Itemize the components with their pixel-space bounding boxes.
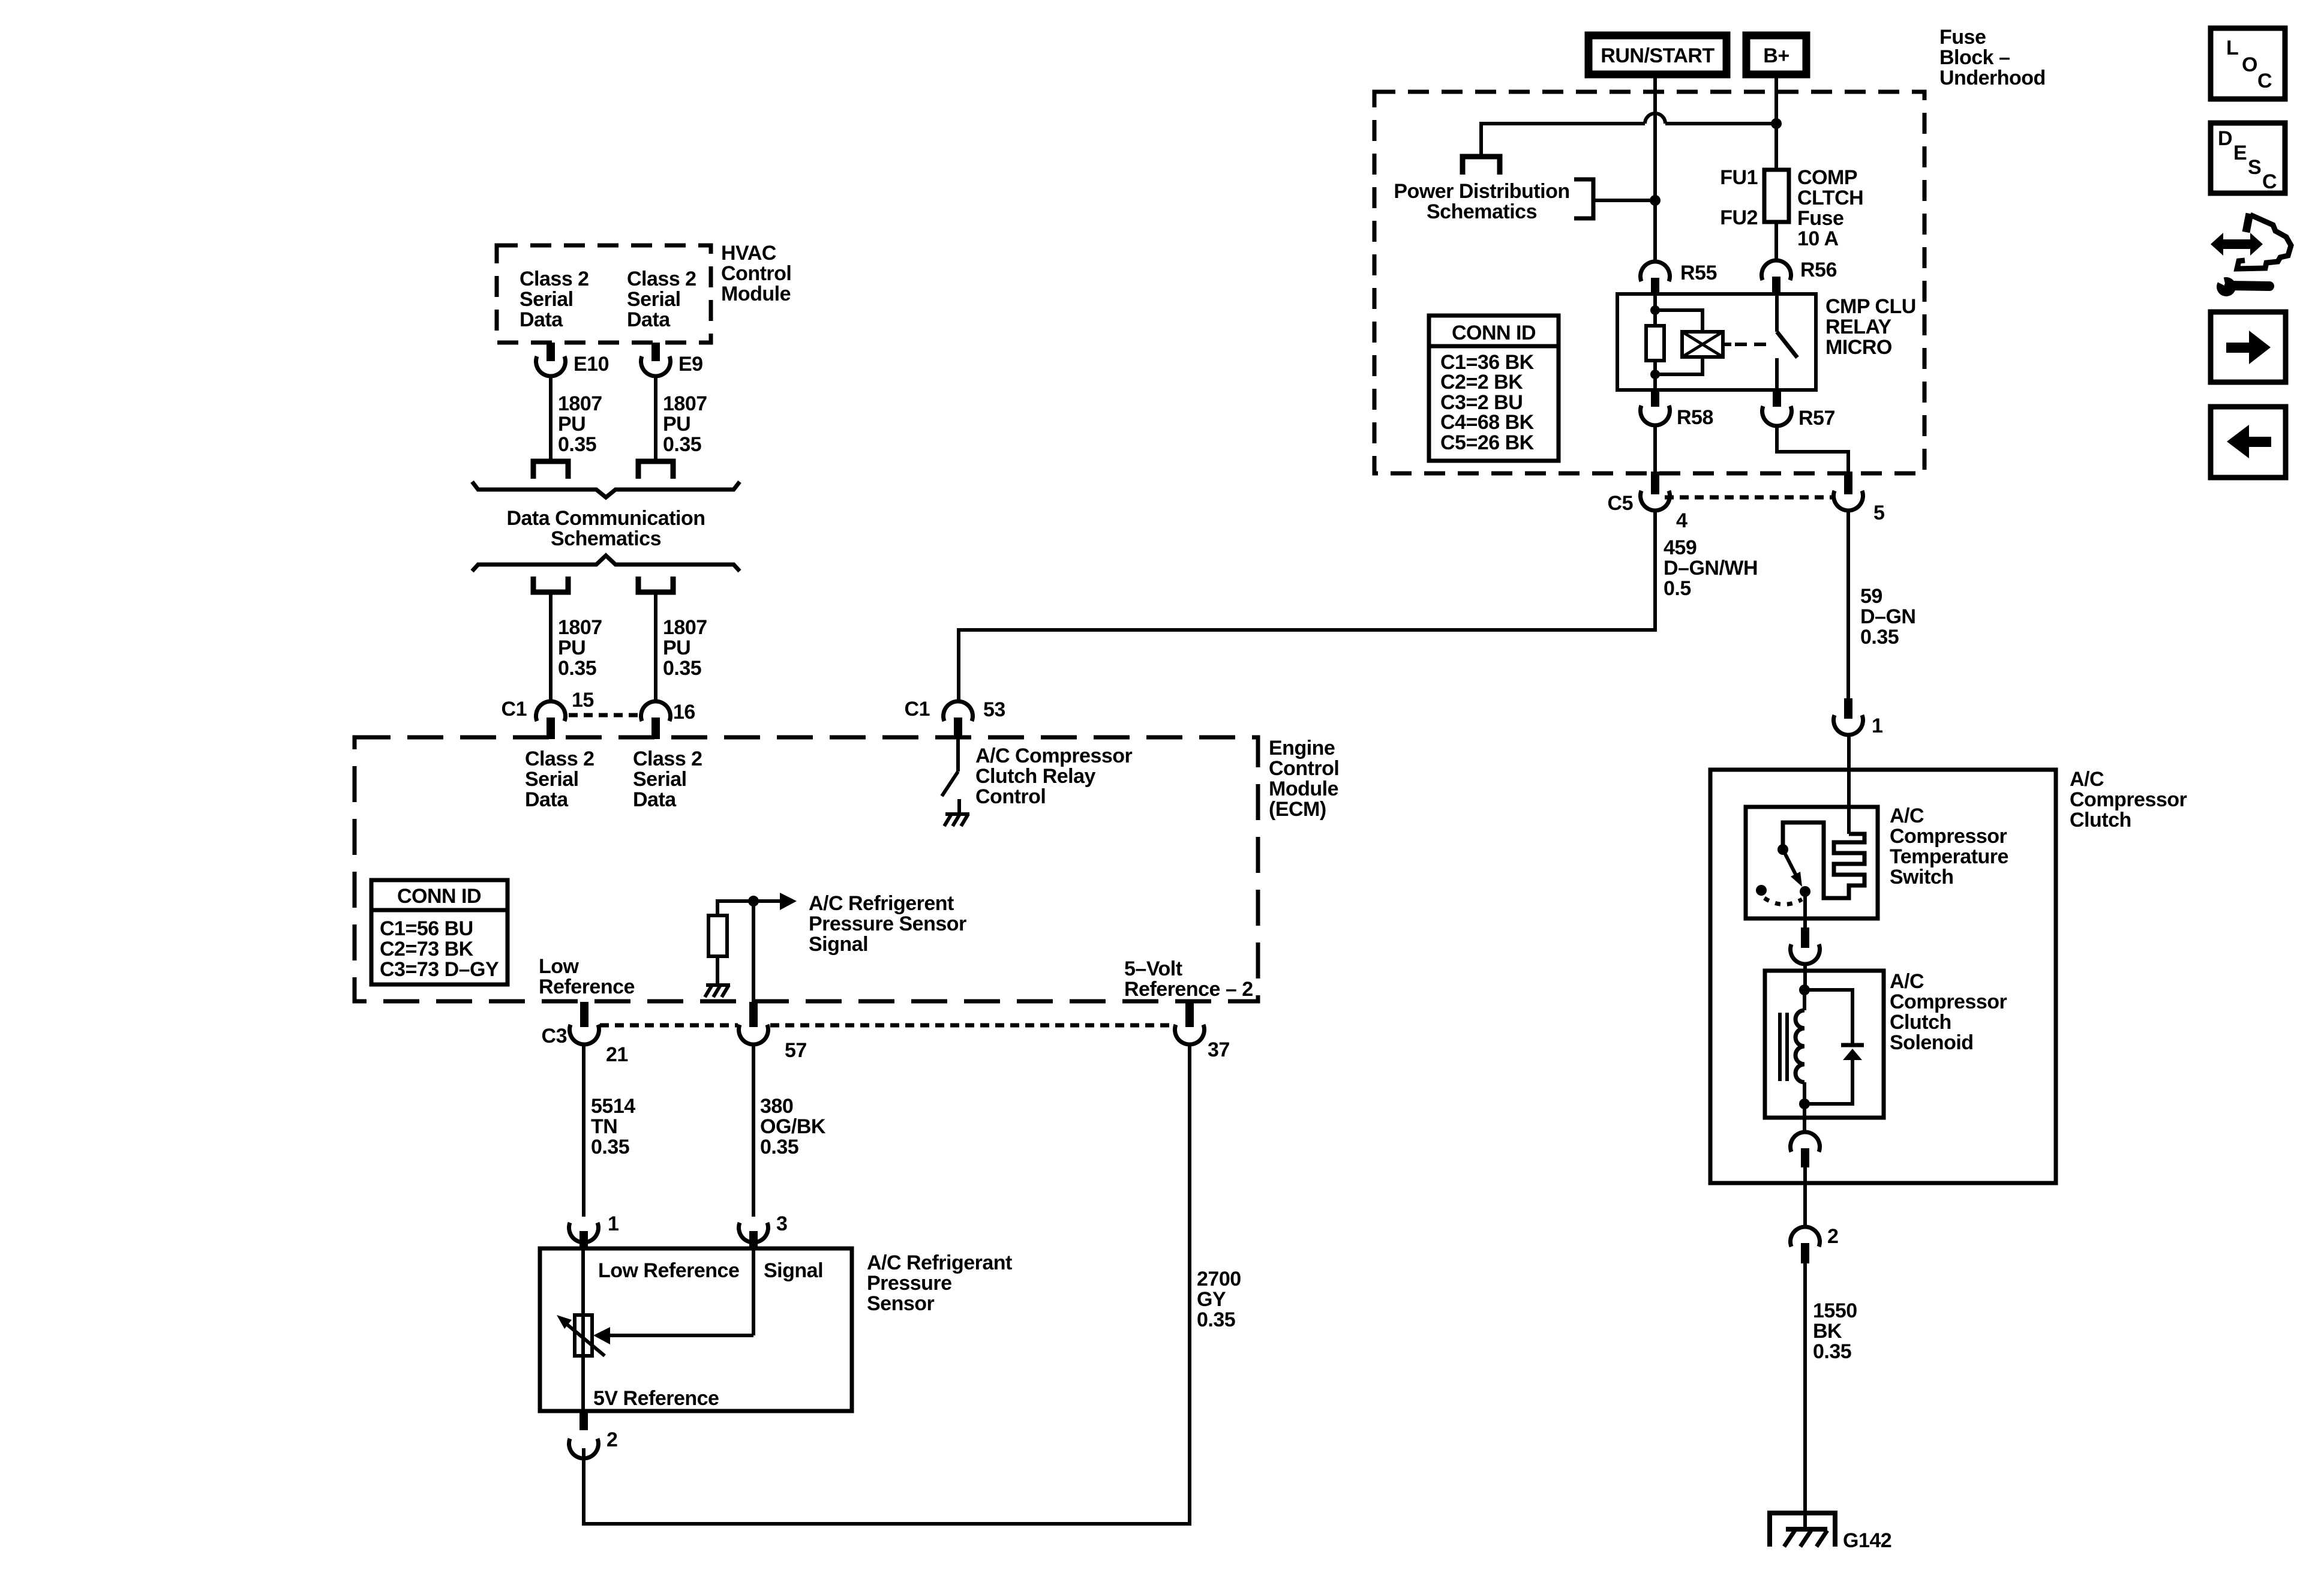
junction dot on RUN/START wire bbox=[1650, 195, 1661, 206]
svg-text:E: E bbox=[2233, 142, 2247, 164]
svg-text:TN: TN bbox=[591, 1115, 617, 1138]
node relay coil bottom bbox=[1650, 370, 1660, 379]
svg-text:C1: C1 bbox=[905, 698, 930, 721]
wire into solenoid box bbox=[1803, 963, 1807, 990]
wire signal down bbox=[752, 901, 755, 1002]
svg-text:D–GN/WH: D–GN/WH bbox=[1664, 557, 1758, 580]
wire 59 D-GN 0.35 bbox=[1846, 510, 1850, 700]
brace lower bbox=[472, 556, 740, 571]
svg-text:37: 37 bbox=[1208, 1038, 1230, 1061]
wire B+ vertical bbox=[1774, 74, 1778, 261]
label A/C Compressor Clutch Relay Control bbox=[975, 745, 1133, 808]
svg-text:C2=2 BK: C2=2 BK bbox=[1440, 371, 1523, 394]
svg-text:GY: GY bbox=[1197, 1288, 1226, 1311]
svg-text:Clutch: Clutch bbox=[1890, 1011, 1951, 1034]
svg-text:MICRO: MICRO bbox=[1825, 336, 1892, 359]
fuse block underhood dashed box bbox=[1374, 92, 1924, 473]
connector sensor pin 2 bbox=[569, 1411, 618, 1458]
connector pin 57 bbox=[738, 1002, 806, 1062]
label 1807 PU 0.35 (lower right) bbox=[663, 616, 707, 680]
svg-text:0.35: 0.35 bbox=[558, 433, 596, 456]
label 2700 GY 0.35 bbox=[1197, 1268, 1241, 1331]
svg-text:CLTCH: CLTCH bbox=[1797, 187, 1863, 209]
svg-text:Class 2: Class 2 bbox=[633, 748, 702, 770]
sensor box bbox=[540, 1248, 852, 1411]
solenoid coil bbox=[1795, 990, 1804, 1104]
svg-text:Fuse: Fuse bbox=[1797, 207, 1843, 230]
svg-text:Compressor: Compressor bbox=[2070, 788, 2187, 811]
svg-text:Clutch: Clutch bbox=[2070, 809, 2131, 831]
label COMP CLTCH Fuse 10 A bbox=[1797, 166, 1863, 250]
label 5-Volt Reference - 2 bbox=[1124, 957, 1253, 1001]
label Low Reference bbox=[539, 955, 635, 998]
svg-text:A/C Refrigerent: A/C Refrigerent bbox=[809, 892, 954, 915]
label Fuse Block - Underhood bbox=[1939, 26, 2046, 89]
bimetal element meander bbox=[1783, 822, 1864, 898]
connector R58 bbox=[1641, 390, 1713, 429]
svg-text:E9: E9 bbox=[678, 353, 703, 376]
svg-text:380: 380 bbox=[760, 1095, 793, 1118]
svg-text:Data: Data bbox=[525, 788, 569, 811]
svg-text:A/C: A/C bbox=[1890, 804, 1924, 827]
svg-text:0.35: 0.35 bbox=[558, 657, 596, 680]
svg-text:0.35: 0.35 bbox=[1860, 626, 1899, 649]
connector pin 5 bbox=[1833, 491, 1884, 524]
relay coil resistor bbox=[1646, 294, 1664, 390]
connector temp switch / solenoid bbox=[1791, 944, 1820, 964]
svg-text:Class 2: Class 2 bbox=[525, 748, 594, 770]
svg-text:C3: C3 bbox=[542, 1025, 567, 1047]
label 5514 TN 0.35 bbox=[591, 1095, 635, 1158]
temp switch blade arrow bbox=[1783, 849, 1802, 887]
svg-text:S: S bbox=[2248, 156, 2261, 179]
svg-text:Class 2: Class 2 bbox=[627, 268, 696, 290]
off-page stub to pin 15 bbox=[533, 577, 568, 592]
connector sensor pin 1 bbox=[569, 1212, 619, 1250]
svg-text:Underhood: Underhood bbox=[1939, 67, 2046, 89]
diode branch bbox=[1804, 990, 1864, 1104]
svg-text:A/C: A/C bbox=[1890, 970, 1924, 993]
connector R57 bbox=[1762, 390, 1835, 430]
svg-text:Data: Data bbox=[520, 308, 563, 331]
wire signal to wiper with arrow bbox=[593, 1248, 753, 1344]
svg-text:Signal: Signal bbox=[764, 1259, 823, 1282]
svg-text:59: 59 bbox=[1860, 585, 1882, 608]
svg-text:57: 57 bbox=[785, 1039, 807, 1062]
svg-text:53: 53 bbox=[983, 698, 1005, 721]
label 59 D-GN 0.35 bbox=[1860, 585, 1915, 649]
wire E9 down bbox=[654, 376, 657, 459]
off-page stub to pin 16 bbox=[638, 577, 673, 592]
label Engine Control Module (ECM) bbox=[1269, 737, 1339, 821]
relay switch bbox=[1777, 294, 1797, 390]
solenoid core bars bbox=[1780, 1013, 1787, 1081]
svg-text:Low Reference: Low Reference bbox=[598, 1259, 739, 1282]
inline connector dashed row C1 15/16 bbox=[569, 713, 639, 718]
svg-text:0.35: 0.35 bbox=[663, 433, 701, 456]
temp switch fixed contact bbox=[1800, 886, 1810, 897]
engine control module dashed box bbox=[355, 737, 1258, 1001]
svg-text:1807: 1807 bbox=[663, 392, 707, 415]
icon next arrow bbox=[2211, 312, 2286, 382]
svg-text:1807: 1807 bbox=[558, 392, 602, 415]
potentiometer bbox=[557, 1248, 605, 1411]
svg-text:Data: Data bbox=[633, 788, 677, 811]
svg-text:Serial: Serial bbox=[633, 768, 687, 791]
svg-text:FU2: FU2 bbox=[1720, 206, 1758, 229]
wire 1550 BK 0.35 bbox=[1803, 1263, 1807, 1513]
HVAC control module dashed box bbox=[497, 245, 711, 343]
temperature switch box bbox=[1746, 807, 1878, 918]
svg-text:C3=73 D–GY: C3=73 D–GY bbox=[380, 958, 499, 981]
svg-text:A/C: A/C bbox=[2070, 768, 2104, 791]
label A/C Compressor Clutch bbox=[2070, 768, 2187, 831]
svg-text:CMP CLU: CMP CLU bbox=[1825, 295, 1916, 318]
svg-text:CONN ID: CONN ID bbox=[397, 885, 481, 908]
svg-text:Reference – 2: Reference – 2 bbox=[1124, 978, 1253, 1001]
svg-text:PU: PU bbox=[663, 413, 690, 436]
svg-text:5–Volt: 5–Volt bbox=[1124, 957, 1182, 980]
power feed box B+ bbox=[1746, 35, 1806, 74]
connector C5 pin 4 bbox=[1608, 491, 1688, 532]
wire 380 OG/BK 0.35 bbox=[752, 1043, 755, 1217]
svg-text:D: D bbox=[2218, 127, 2232, 150]
wire coil to solenoid element bbox=[1655, 310, 1703, 374]
temp switch travel dashed arc bbox=[1756, 885, 1802, 905]
svg-text:Serial: Serial bbox=[627, 288, 681, 311]
svg-text:C1: C1 bbox=[502, 698, 527, 721]
label Class 2 Serial Data (HVAC left) bbox=[520, 268, 589, 331]
svg-text:Switch: Switch bbox=[1890, 866, 1954, 888]
svg-text:PU: PU bbox=[663, 637, 690, 659]
off-page stub E9 bbox=[638, 461, 673, 479]
svg-text:0.5: 0.5 bbox=[1664, 577, 1691, 600]
svg-text:PU: PU bbox=[558, 637, 585, 659]
svg-text:C4=68 BK: C4=68 BK bbox=[1440, 411, 1535, 434]
wire R57 to pin 5 bbox=[1777, 427, 1852, 494]
power distribution fork symbol bbox=[1463, 157, 1500, 175]
svg-text:Low: Low bbox=[539, 955, 580, 978]
svg-text:Engine: Engine bbox=[1269, 737, 1335, 760]
brace upper bbox=[472, 482, 740, 497]
svg-text:R56: R56 bbox=[1800, 259, 1837, 281]
svg-text:Block –: Block – bbox=[1939, 46, 2010, 69]
icon schematic navigation (arrow + wrench) bbox=[2211, 214, 2291, 296]
svg-text:A/C Compressor: A/C Compressor bbox=[975, 745, 1133, 767]
svg-text:Schematics: Schematics bbox=[551, 527, 661, 550]
svg-text:(ECM): (ECM) bbox=[1269, 798, 1326, 821]
svg-text:R57: R57 bbox=[1798, 407, 1835, 430]
wire horizontal feed with hop bbox=[1481, 113, 1776, 157]
wire RUN/START vertical bbox=[1653, 74, 1657, 262]
svg-text:Power Distribution: Power Distribution bbox=[1394, 180, 1569, 203]
inline connector dashed row C5 bbox=[1665, 496, 1833, 500]
svg-text:Pressure Sensor: Pressure Sensor bbox=[809, 912, 966, 935]
svg-text:HVAC: HVAC bbox=[721, 242, 776, 265]
inline connector dashed row C3 bbox=[600, 1023, 1173, 1028]
svg-text:21: 21 bbox=[606, 1043, 628, 1066]
label 1550 BK 0.35 bbox=[1813, 1299, 1857, 1363]
svg-text:Compressor: Compressor bbox=[1890, 990, 2007, 1013]
wire 2700 GY 0.35 bbox=[1188, 1043, 1191, 1526]
connector sensor pin 3 bbox=[738, 1212, 787, 1250]
node signal junction bbox=[748, 896, 759, 906]
svg-text:2700: 2700 bbox=[1197, 1268, 1241, 1290]
label Class 2 Serial Data (ECM left) bbox=[525, 748, 594, 811]
label A/C Refrigerant Pressure Sensor bbox=[867, 1251, 1012, 1315]
svg-text:FU1: FU1 bbox=[1720, 166, 1758, 189]
svg-text:Reference: Reference bbox=[539, 975, 635, 998]
bracket to power distribution bbox=[1574, 179, 1655, 218]
fuse block CONN ID table bbox=[1429, 316, 1559, 461]
node solenoid bottom bbox=[1799, 1098, 1810, 1109]
wire E10 down bbox=[549, 376, 553, 459]
svg-text:R55: R55 bbox=[1680, 262, 1717, 284]
label 1807 PU 0.35 (upper right) bbox=[663, 392, 707, 456]
svg-text:Module: Module bbox=[1269, 778, 1338, 800]
svg-text:C: C bbox=[2257, 70, 2272, 92]
svg-text:Compressor: Compressor bbox=[1890, 825, 2007, 848]
label A/C Refrigerent Pressure Sensor Signal bbox=[809, 892, 966, 956]
svg-text:COMP: COMP bbox=[1797, 166, 1857, 189]
svg-text:Clutch Relay: Clutch Relay bbox=[975, 765, 1096, 788]
label 380 OG/BK 0.35 bbox=[760, 1095, 826, 1158]
svg-text:Temperature: Temperature bbox=[1890, 845, 2008, 868]
wire 5514 TN 0.35 bbox=[582, 1043, 585, 1217]
wire R58 down to C5 bbox=[1651, 425, 1659, 494]
svg-text:C2=73 BK: C2=73 BK bbox=[380, 938, 474, 960]
svg-text:3: 3 bbox=[776, 1212, 787, 1235]
svg-text:Serial: Serial bbox=[520, 288, 574, 311]
connector C1 pin 53 bbox=[905, 698, 1005, 739]
connector pin 2 (clutch) bbox=[1791, 1225, 1839, 1263]
svg-text:E10: E10 bbox=[574, 353, 609, 376]
svg-text:5V Reference: 5V Reference bbox=[593, 1387, 719, 1410]
label A/C Compressor Clutch Solenoid bbox=[1890, 970, 2007, 1054]
connector solenoid bottom bbox=[1791, 1132, 1820, 1167]
svg-text:0.35: 0.35 bbox=[760, 1136, 798, 1158]
svg-text:C5=26 BK: C5=26 BK bbox=[1440, 431, 1535, 454]
svg-text:5: 5 bbox=[1873, 502, 1884, 524]
svg-text:A/C Refrigerant: A/C Refrigerant bbox=[867, 1251, 1012, 1274]
label A/C Compressor Temperature Switch bbox=[1890, 804, 2008, 888]
svg-text:O: O bbox=[2242, 53, 2257, 76]
svg-text:1807: 1807 bbox=[558, 616, 602, 639]
svg-text:1: 1 bbox=[1872, 715, 1882, 737]
fuse COMP CLTCH FU1/FU2 bbox=[1764, 170, 1789, 222]
wire solenoid to connector bbox=[1803, 1104, 1806, 1132]
label 1807 PU 0.35 (upper left) bbox=[558, 392, 602, 456]
connector pin 1 (clutch) bbox=[1833, 698, 1882, 737]
power feed box RUN/START bbox=[1589, 35, 1727, 74]
label Class 2 Serial Data (HVAC right) bbox=[627, 268, 696, 331]
svg-text:Class 2: Class 2 bbox=[520, 268, 589, 290]
svg-text:C1=56 BU: C1=56 BU bbox=[380, 917, 473, 940]
node solenoid top bbox=[1799, 984, 1810, 995]
connector E9 bbox=[641, 343, 702, 376]
label Data Communication Schematics bbox=[506, 507, 705, 550]
junction dot on B+ wire bbox=[1771, 118, 1782, 129]
svg-text:D–GN: D–GN bbox=[1860, 605, 1915, 628]
svg-text:Pressure: Pressure bbox=[867, 1272, 952, 1295]
svg-text:RELAY: RELAY bbox=[1825, 316, 1891, 338]
svg-text:1807: 1807 bbox=[663, 616, 707, 639]
svg-text:459: 459 bbox=[1664, 536, 1697, 559]
wire 459 D-GN/WH 0.5 bbox=[959, 510, 1655, 702]
label CMP CLU RELAY MICRO bbox=[1825, 295, 1916, 359]
svg-text:0.35: 0.35 bbox=[1813, 1340, 1851, 1363]
svg-text:4: 4 bbox=[1676, 509, 1688, 532]
pull-up resistor (ECM internal) bbox=[708, 901, 780, 984]
svg-text:1: 1 bbox=[608, 1212, 618, 1235]
svg-text:2: 2 bbox=[1827, 1225, 1838, 1248]
label HVAC Control Module bbox=[721, 242, 791, 305]
wire sensor pin2 to ECM pin 37 bbox=[584, 1448, 1190, 1524]
connector pin 37 bbox=[1175, 1002, 1230, 1061]
label Power Distribution Schematics bbox=[1394, 180, 1569, 223]
svg-text:OG/BK: OG/BK bbox=[760, 1115, 826, 1138]
ECM CONN ID table bbox=[371, 880, 508, 984]
A/C compressor clutch box bbox=[1710, 770, 2056, 1183]
node relay coil top bbox=[1650, 305, 1660, 315]
relay solenoid element (box with X) bbox=[1682, 332, 1723, 357]
ground (ECM internal) bbox=[944, 814, 969, 826]
ground (resistor) bbox=[705, 985, 730, 997]
wire resistor to signal node with arrow bbox=[780, 893, 797, 910]
svg-text:BK: BK bbox=[1813, 1320, 1842, 1343]
svg-text:Schematics: Schematics bbox=[1427, 200, 1537, 223]
label 459 D-GN/WH 0.5 bbox=[1664, 536, 1758, 600]
icon LOC bbox=[2211, 28, 2285, 99]
svg-text:RUN/START: RUN/START bbox=[1601, 44, 1715, 67]
connector R56 bbox=[1762, 259, 1837, 295]
svg-text:0.35: 0.35 bbox=[663, 657, 701, 680]
svg-text:Solenoid: Solenoid bbox=[1890, 1031, 1974, 1054]
svg-text:G142: G142 bbox=[1843, 1529, 1891, 1552]
temp switch pivot bbox=[1777, 844, 1788, 855]
svg-text:Data: Data bbox=[627, 308, 671, 331]
svg-text:Data Communication: Data Communication bbox=[506, 507, 705, 530]
svg-text:Signal: Signal bbox=[809, 933, 868, 956]
wire to pin 15 bbox=[549, 592, 553, 702]
svg-text:PU: PU bbox=[558, 413, 585, 436]
svg-text:Fuse: Fuse bbox=[1939, 26, 1986, 49]
connector C1 pin 16 bbox=[641, 701, 695, 739]
relay CMP CLU RELAY MICRO box bbox=[1617, 294, 1816, 390]
connector E10 bbox=[536, 343, 609, 376]
wire to clutch pin 2 bbox=[1803, 1167, 1807, 1227]
relay actuator dashed link bbox=[1723, 343, 1771, 346]
ECM relay control switch bbox=[942, 739, 959, 813]
icon previous arrow bbox=[2211, 407, 2286, 478]
svg-text:0.35: 0.35 bbox=[1197, 1308, 1235, 1331]
svg-text:Control: Control bbox=[721, 262, 791, 285]
svg-text:Control: Control bbox=[975, 785, 1046, 808]
svg-text:B+: B+ bbox=[1763, 44, 1789, 67]
svg-text:2: 2 bbox=[606, 1428, 617, 1451]
wire to pin 16 bbox=[654, 592, 657, 702]
label Class 2 Serial Data (ECM right) bbox=[633, 748, 702, 811]
label 1807 PU 0.35 (lower left) bbox=[558, 616, 602, 680]
svg-text:Control: Control bbox=[1269, 757, 1339, 780]
svg-text:C5: C5 bbox=[1608, 492, 1633, 515]
solenoid box bbox=[1765, 971, 1884, 1118]
svg-text:Serial: Serial bbox=[525, 768, 579, 791]
svg-text:CONN ID: CONN ID bbox=[1452, 322, 1536, 344]
svg-text:Module: Module bbox=[721, 283, 791, 305]
connector C1 pin 15 bbox=[502, 689, 594, 739]
ground G142 bbox=[1768, 1511, 1891, 1552]
wire pin1 into temperature switch bbox=[1847, 734, 1851, 834]
connector R55 bbox=[1641, 262, 1717, 295]
svg-text:5514: 5514 bbox=[591, 1095, 635, 1118]
wire temp switch to solenoid connector bbox=[1801, 895, 1809, 948]
svg-text:15: 15 bbox=[572, 689, 594, 712]
icon DESC bbox=[2211, 123, 2285, 193]
svg-text:10 A: 10 A bbox=[1797, 227, 1839, 250]
svg-text:0.35: 0.35 bbox=[591, 1136, 629, 1158]
svg-text:L: L bbox=[2226, 37, 2238, 59]
svg-text:C: C bbox=[2262, 170, 2277, 193]
svg-text:R58: R58 bbox=[1677, 406, 1713, 429]
svg-text:16: 16 bbox=[673, 701, 695, 724]
svg-text:1550: 1550 bbox=[1813, 1299, 1857, 1322]
svg-text:Sensor: Sensor bbox=[867, 1292, 935, 1315]
connector C3 pin 21 bbox=[542, 1002, 628, 1066]
off-page stub E10 bbox=[533, 461, 568, 479]
